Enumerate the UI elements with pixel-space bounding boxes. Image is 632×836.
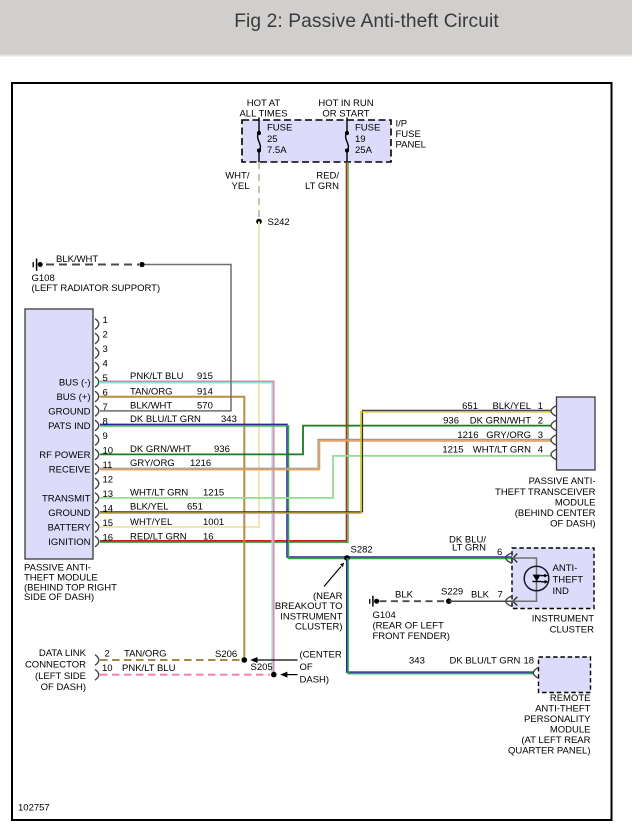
svg-text:LT GRN: LT GRN <box>305 181 339 192</box>
svg-text:MODULE: MODULE <box>550 725 591 736</box>
svg-text:WHT/: WHT/ <box>225 171 250 182</box>
svg-text:1: 1 <box>103 315 108 326</box>
svg-text:RED/LT GRN: RED/LT GRN <box>130 531 187 542</box>
label RED/LT GRN (fuse 19 output) <box>305 171 339 193</box>
svg-text:9: 9 <box>103 431 108 442</box>
module pin 15 <box>48 518 114 533</box>
svg-text:16: 16 <box>103 533 114 544</box>
node HOT IN RUN OR START <box>318 98 373 120</box>
svg-text:OF: OF <box>300 662 313 673</box>
wire BLK/WHT dashed to ground G108 <box>46 264 139 266</box>
svg-text:TAN/ORG: TAN/ORG <box>124 649 167 660</box>
svg-text:(BEHIND CENTER: (BEHIND CENTER <box>515 508 596 519</box>
svg-text:7: 7 <box>103 402 108 413</box>
transceiver pin 4 (WHT/LT GRN 1215) <box>442 445 556 460</box>
svg-text:TAN/ORG: TAN/ORG <box>130 387 173 398</box>
svg-text:ALL TIMES: ALL TIMES <box>239 109 287 120</box>
wire TAN/ORG dashed S206 to data link pin 2 <box>100 659 241 661</box>
svg-text:THEFT TRANSCEIVER: THEFT TRANSCEIVER <box>495 487 596 498</box>
svg-text:2: 2 <box>105 649 110 660</box>
svg-text:CLUSTER: CLUSTER <box>550 625 594 636</box>
svg-text:15: 15 <box>103 518 114 529</box>
svg-text:DATA LINK: DATA LINK <box>39 648 87 659</box>
svg-text:LT GRN: LT GRN <box>452 542 486 553</box>
svg-text:CONNECTOR: CONNECTOR <box>25 660 86 671</box>
svg-text:WHT/LT GRN: WHT/LT GRN <box>473 445 531 456</box>
svg-text:16: 16 <box>203 531 214 542</box>
transceiver pin 1 (BLK/YEL 651) <box>462 401 556 416</box>
wire RED/LT GRN 16 fuse 19 to module pin 16 <box>100 162 348 542</box>
svg-text:GRY/ORG: GRY/ORG <box>130 458 175 469</box>
wire DK GRN/WHT 936 module pin 10 to transceiver pin 2 <box>100 426 552 455</box>
instrument cluster box <box>512 548 594 609</box>
svg-text:14: 14 <box>103 504 114 515</box>
splice S205 <box>271 672 277 678</box>
svg-text:RECEIVE: RECEIVE <box>49 464 91 475</box>
junction dot on BLK/WHT wire <box>139 262 144 267</box>
svg-text:IND: IND <box>553 586 570 597</box>
svg-text:PATS IND: PATS IND <box>48 421 91 432</box>
svg-text:DK BLU/LT GRN: DK BLU/LT GRN <box>130 414 201 425</box>
svg-text:1215: 1215 <box>442 445 463 456</box>
svg-text:S229: S229 <box>441 587 463 598</box>
svg-text:19: 19 <box>355 134 366 145</box>
splice S282 <box>344 545 373 561</box>
splice S206 <box>242 657 248 663</box>
svg-text:OF DASH): OF DASH) <box>41 682 86 693</box>
svg-text:S242: S242 <box>268 217 290 228</box>
svg-text:25: 25 <box>267 134 278 145</box>
wire DK BLU/LT GRN 343 module pin 8 through S282 to instrument cluster pin 6 <box>100 424 518 558</box>
wire BLK S229 to cluster pin 7 <box>449 590 513 602</box>
wire PNK/LT BLU 915 module pin 5 to S205 <box>100 381 274 674</box>
svg-text:BLK: BLK <box>395 590 414 601</box>
svg-text:Fig 2: Passive Anti-theft Circ: Fig 2: Passive Anti-theft Circuit <box>234 11 499 32</box>
svg-text:GRY/ORG: GRY/ORG <box>486 430 531 441</box>
svg-text:BUS (-): BUS (-) <box>59 377 91 388</box>
label BLK/WHT 570 (pin 7) <box>130 401 213 412</box>
svg-text:BATTERY: BATTERY <box>48 522 92 533</box>
svg-text:343: 343 <box>409 655 425 666</box>
ground G108 <box>32 254 161 294</box>
svg-text:S205: S205 <box>251 662 273 673</box>
cluster pin 7 <box>498 590 513 607</box>
remote anti-theft personality module box <box>539 657 591 693</box>
module pin 13 <box>42 489 113 504</box>
svg-text:(REAR OF LEFT: (REAR OF LEFT <box>373 620 444 631</box>
note arrow to S206 <box>250 657 297 663</box>
wire BLK/YEL 651 module pin 14 to transceiver pin 1 <box>100 410 552 513</box>
module pin 7 <box>48 402 108 417</box>
module pin 3 <box>95 344 108 358</box>
node HOT AT ALL TIMES <box>239 98 287 120</box>
fuse 25 7.5A <box>257 118 292 163</box>
svg-text:570: 570 <box>197 401 213 412</box>
svg-text:1: 1 <box>538 401 543 412</box>
svg-text:12: 12 <box>103 475 114 486</box>
wire WHT/LT GRN 1215 module pin 13 to transceiver pin 4 <box>100 456 552 498</box>
label DK BLU/LT GRN 343 (pin 8) <box>130 414 237 425</box>
transceiver pin 2 (DK GRN/WHT 936) <box>443 416 556 431</box>
ground G104 <box>370 596 450 642</box>
svg-text:13: 13 <box>103 489 114 500</box>
label DK GRN/WHT 936 (pin 10) <box>130 444 230 455</box>
I/P fuse panel box <box>242 119 426 163</box>
data link connector caption <box>25 648 87 693</box>
svg-text:BLK/WHT: BLK/WHT <box>56 254 98 265</box>
label WHT/YEL (fuse 25 output) <box>225 171 250 193</box>
drawing number 102757 <box>18 803 50 814</box>
svg-text:914: 914 <box>197 387 213 398</box>
svg-text:1215: 1215 <box>203 488 224 499</box>
svg-text:ANTI-: ANTI- <box>553 563 578 574</box>
svg-text:DASH): DASH) <box>300 674 330 685</box>
wire WHT/YEL dashed segment fuse 25 to S242 <box>258 162 260 222</box>
svg-text:(AT LEFT REAR: (AT LEFT REAR <box>521 735 590 746</box>
svg-text:3: 3 <box>103 344 108 355</box>
svg-text:BLK: BLK <box>471 590 490 601</box>
svg-text:651: 651 <box>187 502 203 513</box>
svg-text:THEFT: THEFT <box>553 575 584 586</box>
module pin 16 <box>48 533 113 548</box>
svg-text:PNK/LT BLU: PNK/LT BLU <box>122 663 176 674</box>
svg-text:1216: 1216 <box>457 430 478 441</box>
svg-text:6: 6 <box>497 547 502 558</box>
svg-text:1001: 1001 <box>203 517 224 528</box>
svg-text:INSTRUMENT: INSTRUMENT <box>532 614 594 625</box>
svg-text:18: 18 <box>524 655 535 666</box>
svg-text:(LEFT SIDE: (LEFT SIDE <box>35 671 86 682</box>
svg-text:HOT AT: HOT AT <box>247 98 281 109</box>
svg-text:2: 2 <box>538 416 543 427</box>
svg-text:I/P: I/P <box>396 119 408 130</box>
module caption PASSIVE ANTI-THEFT MODULE <box>24 562 117 603</box>
svg-text:PERSONALITY: PERSONALITY <box>524 714 591 725</box>
wire BLK/WHT 570 module pin 7 to G108 junction <box>100 265 231 411</box>
cluster caption INSTRUMENT CLUSTER <box>532 614 594 636</box>
module pin 4 <box>95 359 108 373</box>
svg-text:REMOTE: REMOTE <box>550 693 591 704</box>
data link connector pin 10 <box>95 662 273 680</box>
svg-text:343: 343 <box>221 414 237 425</box>
svg-text:4: 4 <box>538 445 543 456</box>
transceiver pin 3 (GRY/ORG 1216) <box>457 430 556 445</box>
svg-text:BLK/YEL: BLK/YEL <box>492 401 531 412</box>
anti-theft indicator LED <box>524 566 549 591</box>
svg-text:RED/: RED/ <box>316 171 339 182</box>
svg-text:OR START: OR START <box>322 109 369 120</box>
svg-text:2: 2 <box>103 330 108 341</box>
svg-text:IGNITION: IGNITION <box>48 537 90 548</box>
svg-text:GROUND: GROUND <box>48 406 90 417</box>
svg-text:BLK/WHT: BLK/WHT <box>130 401 172 412</box>
svg-text:7.5A: 7.5A <box>267 145 287 156</box>
label ANTI-THEFT IND <box>553 563 584 597</box>
wire BLK dashed G104 to S229 <box>380 590 447 602</box>
svg-text:DK GRN/WHT: DK GRN/WHT <box>470 416 531 427</box>
svg-text:PNK/LT BLU: PNK/LT BLU <box>130 371 184 382</box>
svg-text:RF POWER: RF POWER <box>39 450 90 461</box>
svg-text:FUSE: FUSE <box>355 123 380 134</box>
label WHT/LT GRN 1215 (pin 13) <box>130 488 224 499</box>
svg-text:936: 936 <box>443 416 459 427</box>
svg-text:WHT/LT GRN: WHT/LT GRN <box>130 488 188 499</box>
svg-text:10: 10 <box>103 446 114 457</box>
label RED/LT GRN 16 (pin 16) <box>130 531 214 542</box>
svg-text:QUARTER PANEL): QUARTER PANEL) <box>508 746 591 757</box>
svg-text:5: 5 <box>103 373 108 384</box>
svg-text:GROUND: GROUND <box>48 508 90 519</box>
svg-text:6: 6 <box>103 388 108 399</box>
splice S229 <box>441 587 463 604</box>
svg-text:11: 11 <box>103 460 113 471</box>
svg-text:4: 4 <box>103 359 108 370</box>
remote module caption <box>508 693 591 757</box>
module pin 9 <box>95 431 108 445</box>
wire PNK/LT BLU dashed S205 to data link pin 10 <box>100 674 270 676</box>
svg-text:TRANSMIT: TRANSMIT <box>42 493 91 504</box>
svg-text:S282: S282 <box>351 545 373 556</box>
note arrow to S205 <box>280 672 297 678</box>
module pin 14 <box>48 504 113 519</box>
module pin 12 <box>95 475 113 489</box>
svg-text:915: 915 <box>197 371 213 382</box>
wire WHT/YEL 1001 S242 to module pin 15 <box>100 222 259 528</box>
svg-text:8: 8 <box>103 417 108 428</box>
module pin 5 <box>59 373 108 388</box>
arrowhead at cluster pin 7 <box>513 597 517 606</box>
svg-text:BUS (+): BUS (+) <box>56 392 90 403</box>
svg-text:FRONT FENDER): FRONT FENDER) <box>373 631 450 642</box>
svg-text:7: 7 <box>498 590 503 601</box>
label BLK/YEL 651 (pin 14) <box>130 502 203 513</box>
cluster pin 6 <box>449 535 512 564</box>
label GRY/ORG 1216 (pin 11) <box>130 458 211 469</box>
label PNK/LT BLU 915 (pin 5) <box>130 371 213 382</box>
wire TAN/ORG 914 module pin 6 to S206 <box>100 397 244 659</box>
svg-text:DK BLU/LT GRN: DK BLU/LT GRN <box>450 655 521 666</box>
arrowhead at cluster pin 6 <box>513 554 517 563</box>
header bar <box>0 0 632 57</box>
svg-text:ANTI-THEFT: ANTI-THEFT <box>535 704 591 715</box>
svg-text:10: 10 <box>102 663 113 674</box>
svg-text:WHT/YEL: WHT/YEL <box>130 517 172 528</box>
svg-text:SIDE OF DASH): SIDE OF DASH) <box>24 592 94 603</box>
data link connector pin 2 <box>95 649 237 666</box>
anti-theft indicator wiring inside cluster <box>513 558 537 601</box>
module pin 2 <box>95 330 108 344</box>
transceiver caption <box>495 476 596 529</box>
svg-text:FUSE: FUSE <box>396 129 421 140</box>
module pin 8 <box>48 417 108 432</box>
svg-text:(CENTER: (CENTER <box>300 650 342 661</box>
svg-text:OF DASH): OF DASH) <box>550 519 595 530</box>
svg-text:PASSIVE ANTI-: PASSIVE ANTI- <box>529 476 596 487</box>
svg-text:BLK/YEL: BLK/YEL <box>130 502 169 513</box>
svg-text:FUSE: FUSE <box>267 123 292 134</box>
svg-text:102757: 102757 <box>18 803 50 814</box>
svg-text:CLUSTER): CLUSTER) <box>295 622 343 633</box>
wire GRY/ORG 1216 module pin 11 to transceiver pin 3 <box>100 439 552 469</box>
svg-text:S206: S206 <box>215 649 237 660</box>
svg-text:(LEFT RADIATOR SUPPORT): (LEFT RADIATOR SUPPORT) <box>32 283 161 294</box>
fuse 19 25A <box>345 118 380 163</box>
svg-text:936: 936 <box>214 444 230 455</box>
note arrow to S282 <box>275 563 344 633</box>
svg-text:3: 3 <box>538 430 543 441</box>
label WHT/YEL 1001 (pin 15) <box>130 517 224 528</box>
remote module pin 18 <box>409 655 539 678</box>
module pin 10 <box>39 446 113 461</box>
passive anti-theft module connector box <box>25 309 93 559</box>
splice S242 <box>256 217 289 228</box>
svg-text:1216: 1216 <box>190 458 211 469</box>
svg-text:651: 651 <box>462 401 478 412</box>
note (CENTER OF DASH) <box>300 650 342 686</box>
passive anti-theft transceiver module box <box>557 397 596 470</box>
svg-text:DK GRN/WHT: DK GRN/WHT <box>130 444 191 455</box>
wire DK BLU/LT GRN 343 S282 to remote module pin 18 <box>347 558 534 674</box>
svg-text:25A: 25A <box>355 145 373 156</box>
module pin 6 <box>56 388 107 403</box>
module pin 11 <box>49 460 113 475</box>
module pin 1 <box>95 315 108 329</box>
label TAN/ORG 914 (pin 6) <box>130 387 213 398</box>
svg-text:PANEL: PANEL <box>396 140 426 151</box>
svg-text:HOT IN RUN: HOT IN RUN <box>318 98 373 109</box>
svg-text:YEL: YEL <box>232 181 250 192</box>
